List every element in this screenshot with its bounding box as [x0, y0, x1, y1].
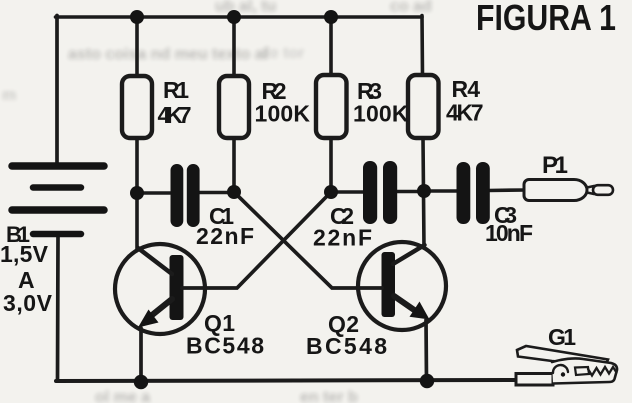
wire Q2 emitter down	[424, 320, 428, 381]
node D	[417, 184, 431, 198]
svg-text:4K7: 4K7	[446, 100, 484, 126]
capacitor C2	[363, 161, 397, 224]
svg-text:BC548: BC548	[306, 333, 387, 359]
svg-text:22nF: 22nF	[196, 223, 254, 249]
wire Q1 emitter down	[139, 328, 143, 382]
wire node A to C1	[137, 191, 173, 195]
wire R3 bottom to node C	[329, 138, 333, 192]
wire cross diagonal node C to Q1 base	[206, 192, 331, 288]
svg-text:22nF: 22nF	[313, 225, 372, 251]
node Q1 emitter on bottom rail	[134, 375, 148, 389]
node Q2 emitter on bottom rail	[420, 374, 434, 388]
resistor R4	[408, 75, 439, 138]
svg-text:R1: R1	[163, 77, 189, 103]
node top rail R1	[130, 10, 144, 24]
wire top right drop to R4	[420, 16, 424, 77]
transistor Q1	[115, 244, 206, 334]
svg-text:asto coisa nd meu texto al: asto coisa nd meu texto al	[68, 46, 268, 63]
resistor R1	[122, 76, 152, 138]
svg-text:m: m	[2, 87, 16, 104]
wire left vertical (battery bottom)	[56, 237, 60, 381]
node B	[227, 185, 241, 199]
svg-text:ub al, tu: ub al, tu	[215, 0, 276, 15]
svg-text:de tor: de tor	[260, 45, 304, 62]
svg-text:G1: G1	[548, 324, 576, 350]
plug P1	[524, 180, 613, 201]
wire C2 to node D	[396, 190, 424, 194]
svg-text:BC548: BC548	[186, 333, 264, 359]
capacitor C1	[171, 164, 200, 227]
node top rail R3	[324, 10, 338, 24]
wire R2 top	[232, 17, 236, 76]
svg-text:1,5V: 1,5V	[0, 241, 49, 267]
wire left vertical (battery top)	[55, 16, 59, 164]
svg-text:4K7: 4K7	[158, 102, 192, 128]
resistor R2	[219, 76, 249, 138]
svg-text:co ad: co ad	[390, 0, 432, 15]
wire node D to C3	[424, 189, 459, 193]
node C	[324, 185, 338, 199]
transistor Q2	[358, 242, 446, 330]
node A	[130, 186, 144, 200]
battery B1	[12, 166, 104, 234]
wire cross diagonal node B to Q2 base	[234, 192, 359, 288]
svg-text:R4: R4	[452, 76, 481, 102]
node top rail R2	[227, 10, 241, 24]
capacitor C3	[457, 162, 490, 224]
clip G1	[516, 346, 617, 385]
wire C3 to P1	[488, 188, 526, 192]
wire R3 top	[329, 17, 333, 76]
resistor R3	[316, 75, 347, 138]
wire R1 bottom to node A and Q1 collector	[135, 138, 139, 252]
wire R1 top	[135, 17, 139, 76]
wire node C to C2	[331, 190, 365, 194]
svg-text:100K: 100K	[353, 101, 409, 127]
wire bottom rail	[56, 380, 518, 381]
wire C1 to node B	[198, 191, 234, 195]
svg-text:3,0V: 3,0V	[3, 290, 53, 316]
svg-text:FIGURA 1: FIGURA 1	[476, 0, 616, 38]
scan ghost noise top	[2, 0, 432, 403]
wire R4 bottom to node D and Q2 collector	[423, 138, 424, 248]
svg-text:100K: 100K	[255, 101, 311, 127]
svg-text:ol me a: ol me a	[95, 389, 150, 403]
svg-text:10nF: 10nF	[485, 220, 533, 246]
svg-text:en ter b: en ter b	[300, 389, 358, 403]
svg-text:P1: P1	[542, 152, 568, 179]
wire R2 bottom to node B	[232, 138, 236, 192]
wire top rail	[56, 15, 423, 19]
